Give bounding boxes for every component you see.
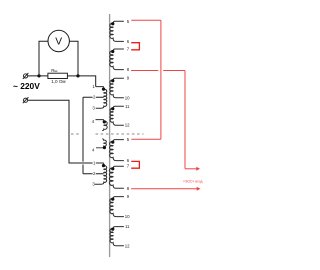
T2 screen winding pin 4 bbox=[96, 139, 106, 148]
wire resistor to node B bbox=[67, 75, 78, 77]
T2 phase dot primary bbox=[102, 164, 105, 167]
transformer T1 primary winding 1-2-3 bbox=[96, 87, 107, 109]
node A bbox=[37, 74, 40, 77]
transformer T2 primary winding 1-2-3 bbox=[95, 163, 107, 184]
T2 secondary winding 7-8 bbox=[109, 166, 123, 188]
wire node B to T1 pin1 bbox=[78, 76, 96, 87]
T1 secondary winding 7-8 bbox=[110, 49, 124, 70]
svg-text:1,0 Ом: 1,0 Ом bbox=[51, 79, 65, 84]
svg-text:12: 12 bbox=[125, 243, 130, 248]
red jumper bracket T1 pins 6-7 bbox=[131, 43, 139, 50]
resistor Rsh bbox=[48, 73, 68, 78]
wire bus T1.2 to T2.2 bbox=[82, 97, 84, 174]
T1 secondary phase dot pin 9 bbox=[111, 79, 114, 82]
red wire T2 pin5 to bus bbox=[131, 138, 161, 140]
T1 screen winding pin 4 bbox=[96, 120, 108, 131]
red jumper bracket T2 pins 6-7 bbox=[131, 161, 139, 168]
T2 secondary phase dot pin 9 bbox=[111, 197, 114, 200]
red vertical bus 1 bbox=[160, 20, 162, 139]
T1 secondary phase dot pin 5 bbox=[111, 22, 114, 25]
T2 secondary phase dot pin 11 bbox=[111, 227, 114, 230]
wire voltmeter left lead bbox=[39, 41, 48, 76]
T1 tap 2 wire bbox=[83, 96, 104, 98]
T1 secondary winding 5-6 bbox=[110, 21, 124, 41]
screen boundary dashed line left bbox=[71, 133, 80, 135]
svg-text:~ 220V: ~ 220V bbox=[13, 81, 40, 91]
wire voltmeter right lead bbox=[69, 41, 78, 76]
T2 secondary phase dot pin 7 bbox=[111, 167, 114, 170]
svg-text:12: 12 bbox=[125, 123, 130, 128]
T1 screen dot bbox=[103, 120, 106, 123]
red arrow to oscilloscope 1 bbox=[185, 168, 197, 170]
T2 secondary winding 11-12 bbox=[110, 227, 124, 246]
T1 pin 2 label bbox=[93, 95, 96, 99]
T2 secondary winding 9-10 bbox=[110, 197, 124, 217]
T1 secondary winding 11-12 bbox=[110, 106, 124, 125]
red wire T1 pin5 to bus bbox=[131, 19, 161, 21]
svg-text:10: 10 bbox=[125, 214, 130, 219]
svg-text:Rш: Rш bbox=[51, 68, 57, 73]
wire X1 to resistor bbox=[28, 75, 48, 77]
svg-text:10: 10 bbox=[125, 95, 130, 100]
T1 secondary phase dot pin 11 bbox=[111, 107, 114, 110]
terminal X2 bbox=[23, 97, 29, 103]
T2 pin 1 label bbox=[93, 161, 96, 165]
T2 tap 2 wire bbox=[83, 173, 104, 175]
T1 phase dot primary bbox=[102, 87, 105, 90]
voltmeter PV1 bbox=[48, 30, 69, 51]
T2 secondary winding 5-6 bbox=[110, 140, 124, 161]
T1 secondary phase dot pin 7 bbox=[111, 50, 114, 53]
svg-text:V: V bbox=[55, 37, 62, 48]
svg-text:11: 11 bbox=[125, 104, 130, 109]
wire X2 to T2 pin1 bbox=[28, 100, 102, 163]
red wire T2 pin8 arrow to oscilloscope 2 bbox=[131, 188, 197, 190]
T2 secondary phase dot pin 5 bbox=[111, 140, 114, 143]
svg-text:11: 11 bbox=[125, 224, 130, 229]
T2 pin 2 label bbox=[93, 172, 96, 176]
terminal X1 bbox=[23, 73, 29, 79]
transformer core bbox=[109, 14, 111, 257]
T2 screen dot bbox=[103, 146, 106, 149]
svg-text:«ЭОС» вход: «ЭОС» вход bbox=[183, 179, 203, 183]
node B bbox=[76, 74, 79, 77]
red wire T1 pin8 bbox=[131, 70, 185, 72]
screen boundary dashed line right bbox=[96, 133, 144, 135]
T1 secondary winding 9-10 bbox=[110, 78, 124, 98]
red vertical bus 2 bbox=[184, 71, 186, 169]
